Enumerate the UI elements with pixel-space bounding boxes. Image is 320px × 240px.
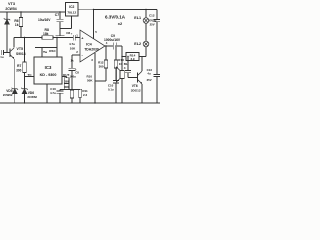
svg-text:25V: 25V bbox=[147, 78, 152, 82]
svg-text:18k: 18k bbox=[43, 32, 49, 36]
capacitor C11 bbox=[125, 71, 131, 73]
wire Tw pin bbox=[35, 48, 57, 58]
svg-text:IC4: IC4 bbox=[86, 43, 92, 47]
svg-text:4.7u: 4.7u bbox=[50, 91, 56, 95]
wire node under amp bbox=[60, 89, 80, 91]
wire R11 to ground bbox=[79, 97, 81, 103]
lamp EL1 bbox=[143, 18, 149, 24]
svg-text:10u/16V: 10u/16V bbox=[38, 18, 51, 22]
svg-text:OUT: OUT bbox=[63, 73, 70, 77]
wire VT6 collector bbox=[141, 57, 143, 72]
ground bbox=[56, 29, 65, 38]
svg-text:+: + bbox=[71, 32, 73, 36]
node F bbox=[71, 89, 72, 90]
wire TC stub bbox=[25, 76, 35, 78]
resistor R12 bbox=[104, 60, 108, 68]
svg-text:6.3V/0.1A: 6.3V/0.1A bbox=[105, 14, 126, 19]
resistor R13 bbox=[114, 60, 118, 68]
zener VD6 bbox=[21, 88, 27, 94]
resistor 300 box bbox=[64, 78, 69, 84]
svg-text:78L12: 78L12 bbox=[67, 11, 76, 15]
wire C11 to VT6 base bbox=[128, 57, 138, 78]
wire signal run bbox=[14, 37, 80, 39]
wire top rail left bbox=[0, 11, 66, 13]
svg-text:1000u/16V: 1000u/16V bbox=[104, 38, 121, 42]
svg-text:10: 10 bbox=[119, 62, 123, 66]
wire VT5 collector bbox=[13, 38, 15, 48]
wire input cap left bbox=[2, 50, 10, 55]
capacitor C12 bbox=[154, 20, 160, 22]
svg-text:30K: 30K bbox=[64, 86, 69, 89]
svg-text:0.1u: 0.1u bbox=[108, 87, 114, 91]
resistor R8 bbox=[42, 36, 53, 40]
svg-text:10K: 10K bbox=[70, 46, 76, 50]
svg-text:300: 300 bbox=[99, 64, 104, 68]
capacitor C9 bbox=[114, 43, 117, 50]
wire R12 bottom link bbox=[95, 80, 106, 82]
svg-text:EL2: EL2 bbox=[134, 42, 141, 46]
wire R9 to ground bbox=[71, 90, 73, 103]
IC3 music chip box bbox=[34, 57, 62, 84]
wire OUT pin via 300 bbox=[62, 77, 67, 90]
wire output node bbox=[105, 45, 122, 47]
node G bbox=[105, 45, 106, 46]
svg-text:C12: C12 bbox=[149, 14, 155, 18]
svg-text:Tw: Tw bbox=[43, 50, 48, 54]
node E bbox=[56, 37, 57, 38]
svg-text:25V: 25V bbox=[150, 22, 155, 26]
wire VT5 emitter chain bbox=[14, 59, 16, 103]
wire R13 branch bbox=[115, 46, 117, 103]
op-amp U1 TDA2030 bbox=[80, 30, 105, 62]
resistor R14 box bbox=[126, 53, 139, 61]
wire C10 cap to ground bbox=[59, 90, 61, 103]
IC2 regulator box bbox=[66, 3, 79, 17]
svg-text:VT6: VT6 bbox=[132, 84, 138, 88]
resistor R11 bbox=[78, 89, 82, 97]
svg-text:1u: 1u bbox=[0, 55, 4, 59]
lamp EL2 bbox=[143, 41, 149, 47]
wire VT6 emitter bbox=[141, 84, 143, 103]
wire top rail right bbox=[94, 8, 158, 10]
node H bbox=[115, 45, 116, 46]
wire C12 C13 branch bbox=[156, 9, 158, 103]
node I bbox=[127, 56, 128, 57]
resistor 30K box bbox=[64, 84, 69, 90]
node K bbox=[94, 102, 95, 103]
capacitor C13 bbox=[154, 74, 160, 76]
wire C7 branch bbox=[59, 12, 61, 29]
svg-text:IC2: IC2 bbox=[69, 5, 74, 9]
svg-text:OSC: OSC bbox=[49, 49, 56, 53]
svg-text:TDA2030: TDA2030 bbox=[84, 48, 99, 52]
wire bottom rail bbox=[0, 102, 160, 104]
resistor R9 bbox=[70, 90, 74, 98]
svg-text:KD - 9300: KD - 9300 bbox=[40, 73, 57, 77]
svg-text:4u: 4u bbox=[147, 72, 151, 76]
svg-text:2CW62: 2CW62 bbox=[3, 93, 13, 97]
capacitor C7 bbox=[57, 19, 64, 21]
node A bbox=[20, 11, 21, 12]
svg-text:EL1: EL1 bbox=[134, 16, 141, 20]
wire inverting input bbox=[72, 55, 80, 90]
svg-text:2CW54: 2CW54 bbox=[5, 7, 16, 11]
capacitor C8 bbox=[73, 35, 75, 41]
svg-text:2CW62: 2CW62 bbox=[27, 95, 37, 99]
svg-text:VT5: VT5 bbox=[17, 47, 23, 51]
node M bbox=[121, 56, 122, 57]
capacitor C8 feedback bbox=[69, 68, 76, 70]
node L bbox=[24, 102, 25, 103]
wire R7 chain bbox=[24, 38, 26, 104]
node J bbox=[145, 9, 146, 10]
wire zener VD4 branch bbox=[6, 12, 8, 53]
svg-text:300: 300 bbox=[16, 68, 22, 72]
zener VD5 bbox=[12, 88, 18, 94]
node C bbox=[93, 9, 94, 10]
node B bbox=[59, 11, 60, 12]
wire op-amp pin 3 to ground bbox=[94, 53, 96, 103]
svg-text:VT3: VT3 bbox=[8, 2, 15, 6]
svg-text:S9013: S9013 bbox=[16, 52, 26, 56]
capacitor C10 bbox=[57, 91, 64, 93]
wire V+ riser to op-amp pin 5 bbox=[93, 9, 95, 39]
svg-text:50K: 50K bbox=[87, 79, 93, 83]
wire R6 branch bbox=[20, 12, 22, 38]
resistor R6 bbox=[19, 18, 23, 27]
svg-text:300: 300 bbox=[65, 80, 70, 83]
svg-text:100u: 100u bbox=[70, 75, 77, 79]
capacitor C10 zobel bbox=[113, 81, 119, 84]
svg-text:IC3: IC3 bbox=[45, 65, 52, 70]
wire IC2 ground pin bbox=[60, 16, 72, 29]
svg-text:2.2: 2.2 bbox=[83, 93, 88, 97]
svg-text:1k: 1k bbox=[71, 59, 75, 63]
wire IC2 output bbox=[78, 9, 94, 11]
zener VD4 bbox=[4, 18, 10, 24]
svg-text:3DG12: 3DG12 bbox=[131, 89, 141, 93]
svg-text:C7: C7 bbox=[55, 13, 59, 17]
wire OSC pin drop bbox=[56, 38, 58, 58]
svg-text:3.9: 3.9 bbox=[130, 57, 134, 61]
wire lamp chain bbox=[145, 9, 147, 56]
svg-text:1k: 1k bbox=[15, 23, 19, 27]
transistor VT5 bbox=[9, 49, 11, 58]
wire speaker to ground bbox=[121, 46, 123, 103]
resistor R7 bbox=[23, 62, 27, 73]
wire R12 branch bbox=[105, 46, 107, 81]
node D bbox=[24, 37, 25, 38]
svg-text:4: 4 bbox=[124, 66, 126, 70]
wire output to R14 bbox=[122, 56, 146, 58]
speaker BL bbox=[120, 71, 124, 79]
transistor VT6 bbox=[137, 73, 139, 83]
wire IC3 bottom pin bbox=[46, 84, 48, 103]
